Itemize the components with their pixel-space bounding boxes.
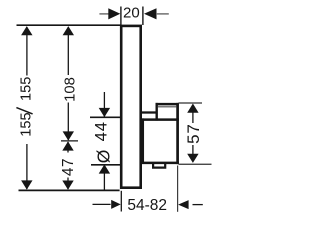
dim line D44 lower segment: [103, 174, 105, 191]
arrow right 54-82 left: [111, 200, 121, 209]
arrow up 57 top: [187, 104, 198, 113]
D44 bottom extension line: [91, 164, 121, 166]
label 155/155 slash: [16, 108, 32, 114]
svg-text:57: 57: [184, 123, 203, 144]
svg-text:44: 44: [91, 121, 110, 141]
svg-text:20: 20: [123, 5, 140, 22]
sleeve top line B: [141, 118, 179, 121]
dim line 47 lower segment: [67, 178, 69, 190]
bottom extension line: [19, 189, 120, 191]
body left edge: [142, 118, 144, 164]
arrow down 47 bottom: [62, 181, 73, 190]
svg-text:54-82: 54-82: [127, 197, 167, 214]
arrow right 20 left: [108, 8, 120, 19]
20 left extension line: [120, 7, 122, 26]
svg-text:155: 155: [18, 112, 34, 136]
54-82 right extension line: [177, 166, 179, 212]
arrow up D44 bottom: [99, 164, 110, 173]
arrow up 108 top: [63, 26, 74, 35]
dim line 155/155 upper segment: [26, 27, 28, 76]
svg-text:Ø: Ø: [93, 149, 113, 163]
plate (side view rectangle): [121, 26, 141, 188]
dim line D44 upper segment: [103, 92, 105, 117]
body bottom edge: [141, 162, 179, 165]
svg-text:108: 108: [63, 77, 79, 102]
arrow left 54-82 right: [178, 200, 189, 209]
dim line 155/155 lower segment: [26, 144, 28, 189]
57 top extension line: [179, 102, 203, 104]
dim line 108 lower segment: [67, 103, 69, 141]
knob inner thin line: [158, 106, 176, 108]
dim line 108 upper segment: [67, 27, 69, 75]
57 bottom extension line: [179, 163, 212, 165]
knob top edge: [156, 103, 179, 106]
20 dim right tail: [157, 13, 169, 15]
54-82 left extension line: [120, 191, 122, 212]
arrow up 155 top: [21, 26, 32, 35]
top extension line: [17, 24, 122, 26]
arrow left 20 right: [144, 8, 157, 19]
svg-text:155: 155: [18, 77, 34, 101]
arrow down 155 bottom: [21, 180, 32, 189]
dim line 47 upper segment: [67, 142, 69, 153]
bottom notch: [153, 163, 165, 168]
arrow down 57 bottom: [187, 154, 198, 163]
knob left edge: [155, 103, 157, 121]
svg-text:47: 47: [60, 158, 77, 176]
arrow down D44 top: [99, 108, 110, 117]
54-82 dim right tail: [193, 204, 203, 206]
neck top line A: [141, 111, 157, 113]
tick at valve centerline: [61, 140, 78, 142]
arrow up 47 top: [62, 141, 73, 150]
dim line 57 lower segment: [192, 145, 194, 154]
54-82 dim left tail: [93, 203, 111, 205]
arrow down 108 bottom: [63, 131, 74, 140]
dim line 57 upper segment: [192, 112, 194, 123]
knob right edge: [176, 103, 179, 164]
D44 top extension line: [90, 116, 121, 118]
20 dim left tail: [99, 13, 109, 15]
20 right extension line: [142, 7, 144, 26]
